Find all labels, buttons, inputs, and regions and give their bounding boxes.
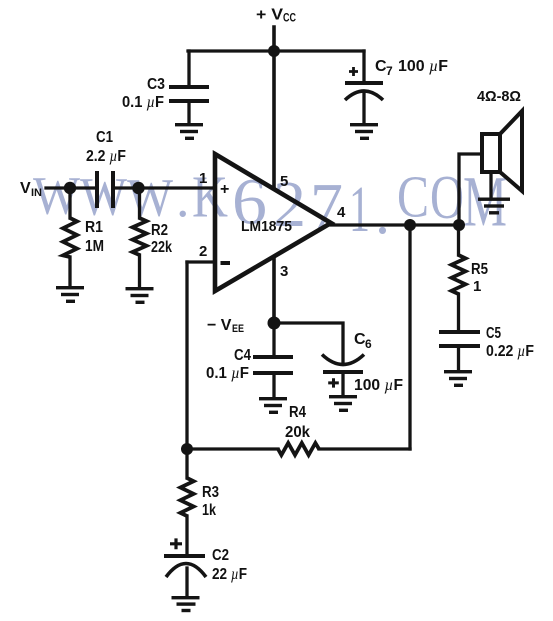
label 0.1uF C3 xyxy=(122,94,164,111)
speaker 4ohm-8ohm xyxy=(482,111,522,191)
svg-text:100 µF: 100 µF xyxy=(354,377,403,394)
label 22uF C2 xyxy=(212,566,247,583)
ground under C3 xyxy=(175,123,203,140)
svg-text:R1: R1 xyxy=(85,219,103,236)
label pin 4 xyxy=(337,204,346,221)
wire VEE node to C6 xyxy=(274,323,343,362)
resistor R1 xyxy=(63,218,77,257)
capacitor C1 xyxy=(95,171,115,208)
svg-text:0.22 µF: 0.22 µF xyxy=(486,343,534,360)
node output junction xyxy=(404,219,416,231)
svg-text:C4: C4 xyxy=(234,347,251,364)
wire pin 2 down to feedback node xyxy=(185,262,188,449)
label C5 xyxy=(486,325,501,342)
svg-text:22k: 22k xyxy=(151,239,172,256)
node speaker junction xyxy=(453,219,465,231)
wire feedback left segment xyxy=(187,447,278,450)
label R1 xyxy=(85,219,103,236)
label +VCC xyxy=(256,7,296,25)
wire speaker to ground xyxy=(489,172,492,198)
wire C6 to ground xyxy=(341,374,344,396)
svg-text:W: W xyxy=(127,168,173,228)
label 1 R5 xyxy=(473,278,481,295)
wire C4 to ground xyxy=(272,375,275,398)
svg-text:C1: C1 xyxy=(96,129,113,146)
wire pin 2 to left xyxy=(187,260,215,263)
wire +VCC stub down to pin 5 xyxy=(272,27,276,187)
wire C7 to ground xyxy=(362,94,365,124)
capacitor C7 xyxy=(345,81,383,100)
svg-text:4Ω-8Ω: 4Ω-8Ω xyxy=(477,88,521,105)
ground under R1 xyxy=(56,286,84,303)
label - input op-amp xyxy=(221,261,231,265)
label R4 xyxy=(289,404,306,421)
label C7 xyxy=(375,58,393,78)
svg-text:7: 7 xyxy=(386,64,393,78)
label pin 2 xyxy=(199,243,207,260)
svg-text:1k: 1k xyxy=(202,502,216,519)
svg-text:1: 1 xyxy=(199,170,207,187)
ground under C4 xyxy=(259,397,287,414)
wire C4 top lead xyxy=(272,323,275,355)
wire pin 3 down to VEE node xyxy=(272,258,276,323)
svg-text:1: 1 xyxy=(349,173,370,246)
ground under C2 xyxy=(172,596,200,612)
wire R1 bottom lead xyxy=(68,257,71,287)
label pin 3 xyxy=(280,263,288,280)
label 4ohm-8ohm speaker xyxy=(477,88,521,105)
ground under C6 xyxy=(329,395,357,412)
svg-text:R5: R5 xyxy=(471,261,488,278)
label + input op-amp xyxy=(220,181,229,198)
resistor R5 xyxy=(452,255,466,294)
ground under R2 xyxy=(126,287,154,304)
svg-text:1M: 1M xyxy=(85,238,104,255)
resistor R3 xyxy=(180,478,193,516)
label VIN xyxy=(20,180,42,199)
svg-text:− V: − V xyxy=(207,317,232,334)
wire R5 top lead xyxy=(457,225,460,255)
label pin 5 xyxy=(280,173,288,190)
svg-text:2: 2 xyxy=(199,243,207,260)
svg-text:+ V: + V xyxy=(256,7,283,24)
node VCC junction xyxy=(268,45,280,57)
svg-text:0.1 µF: 0.1 µF xyxy=(122,94,164,111)
label R3 xyxy=(202,484,219,501)
wire C5 to ground xyxy=(457,348,460,371)
capacitor C3 xyxy=(169,85,209,103)
node feedback junction xyxy=(181,443,193,455)
svg-text:R2: R2 xyxy=(151,222,168,239)
wire output pin 4 xyxy=(331,223,459,226)
svg-text:+: + xyxy=(220,181,229,198)
label pin 1 xyxy=(199,170,207,187)
wire feedback vertical from output xyxy=(408,225,411,449)
node VEE junction xyxy=(268,317,281,330)
svg-text:IN: IN xyxy=(31,187,42,199)
label 2.2uF C1 xyxy=(86,148,126,165)
wire C3 drop from rail xyxy=(187,51,190,85)
svg-text:LM1875: LM1875 xyxy=(241,218,292,235)
wire feedback right segment xyxy=(319,447,410,450)
svg-text:EE: EE xyxy=(232,323,244,335)
svg-text:C3: C3 xyxy=(147,76,165,93)
label 100uF C6 xyxy=(354,377,403,394)
wire C2 to ground xyxy=(185,568,188,596)
label 0.22uF C5 xyxy=(486,343,534,360)
svg-text:20k: 20k xyxy=(285,424,310,441)
wire R1 top lead xyxy=(68,188,71,218)
svg-text:C5: C5 xyxy=(486,325,501,342)
svg-text:V: V xyxy=(20,180,31,197)
label C4 xyxy=(234,347,251,364)
capacitor C6 xyxy=(322,355,364,375)
label 0.1uF C4 xyxy=(206,365,249,382)
capacitor C5 xyxy=(439,330,480,348)
resistor R4 xyxy=(278,443,319,455)
capacitor C4 xyxy=(253,355,293,375)
label 1k R3 xyxy=(202,502,216,519)
svg-text:0.1 µF: 0.1 µF xyxy=(206,365,249,382)
watermark WWW.K6271.COM xyxy=(33,162,507,247)
label C6 xyxy=(354,331,372,351)
label C1 xyxy=(96,129,113,146)
node input junction R1 xyxy=(64,182,76,194)
wire R3 top lead xyxy=(185,449,188,478)
label 1M R1 xyxy=(85,238,104,255)
label 100uF C7 xyxy=(398,58,448,75)
label R5 xyxy=(471,261,488,278)
svg-text:R3: R3 xyxy=(202,484,219,501)
resistor R2 xyxy=(133,218,147,255)
label 20k R4 xyxy=(285,424,310,441)
svg-text:6: 6 xyxy=(365,337,372,351)
ground under C7 xyxy=(350,123,378,140)
label C3 xyxy=(147,76,165,93)
wire R2 bottom lead xyxy=(138,255,141,288)
label -VEE xyxy=(207,317,244,335)
wire R3 to C2 xyxy=(185,516,188,556)
wire top rail VCC xyxy=(188,49,364,52)
svg-text:5: 5 xyxy=(280,173,288,190)
svg-text:100 µF: 100 µF xyxy=(398,58,448,75)
svg-text:3: 3 xyxy=(280,263,288,280)
svg-text:W: W xyxy=(80,167,127,227)
wire C3 to ground xyxy=(187,103,190,124)
svg-text:R4: R4 xyxy=(289,404,306,421)
svg-text:1: 1 xyxy=(473,278,481,295)
label + C7 xyxy=(349,67,358,76)
svg-text:2.2 µF: 2.2 µF xyxy=(86,148,126,165)
label C2 xyxy=(212,547,229,564)
wire C1 to pin 1 xyxy=(114,186,215,189)
wire R2 top lead xyxy=(138,188,141,218)
svg-text:C2: C2 xyxy=(212,547,229,564)
svg-text:C: C xyxy=(397,164,429,230)
wire R5 to C5 xyxy=(457,294,460,330)
svg-text:4: 4 xyxy=(337,204,346,221)
svg-text:.: . xyxy=(176,168,190,228)
capacitor C2 xyxy=(164,554,206,577)
node input junction R2 xyxy=(132,182,144,194)
wire output up to speaker xyxy=(459,154,482,225)
ground under speaker xyxy=(478,198,510,215)
label + C6 xyxy=(328,378,339,387)
label 22k R2 xyxy=(151,239,172,256)
op-amp U1 LM1875 xyxy=(215,154,331,291)
svg-text:CC: CC xyxy=(283,13,296,25)
label LM1875 xyxy=(241,218,292,235)
label R2 xyxy=(151,222,168,239)
svg-text:22 µF: 22 µF xyxy=(212,566,247,583)
svg-text:.: . xyxy=(375,180,390,246)
wire C7 drop from rail xyxy=(362,51,365,82)
label + C2 xyxy=(170,538,182,549)
ground under C5 xyxy=(444,370,472,387)
wire input VIN to C1 xyxy=(46,186,96,189)
